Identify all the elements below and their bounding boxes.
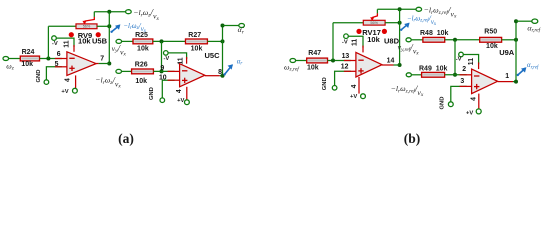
U5B output red stub — [96, 63, 99, 65]
wire -V to pin 11 of U8D — [348, 36, 363, 47]
wire RV9 wiper up to top rail — [93, 12, 95, 17]
label RV17 — [362, 28, 381, 37]
svg-text:10: 10 — [159, 74, 167, 81]
power terminal +V of U8D — [361, 94, 366, 99]
svg-text:56%: 56% — [370, 21, 378, 25]
label omega_z — [6, 61, 15, 71]
pin 4 red stub U5C — [186, 87, 188, 100]
pin 3 number — [460, 78, 464, 85]
label GND of U5C — [149, 87, 155, 100]
power terminal -V of U9A — [459, 52, 464, 57]
junction U9A output node — [514, 80, 518, 84]
svg-text:10k: 10k — [21, 61, 33, 68]
label -Ir.wz/vx black — [133, 8, 159, 22]
wire R49 to pin 2 — [445, 74, 467, 76]
wire U5C output to rail — [220, 75, 223, 77]
svg-text:7: 7 — [100, 56, 104, 63]
pin 11 number U9A — [468, 58, 475, 65]
RV17 adjust dot right — [382, 29, 387, 34]
wire omega_z_ref to R47 — [296, 60, 307, 62]
U8D non-inverting input marker — [358, 68, 363, 73]
svg-text:4: 4 — [351, 84, 358, 88]
label R49 10k — [419, 66, 448, 73]
svg-text:9: 9 — [160, 65, 164, 72]
svg-text:GND: GND — [440, 97, 446, 110]
top rail wire b — [377, 8, 415, 10]
pin 1 number — [505, 73, 509, 80]
label omega_z_ref — [284, 62, 300, 72]
label R47 — [308, 50, 321, 57]
voltage probe on U5B output — [110, 24, 120, 33]
wire vy/vx to R25 — [122, 40, 133, 42]
top rail wire — [94, 11, 125, 13]
probe label -Ir.wzref/vx blue — [407, 14, 437, 27]
svg-text:U9A: U9A — [499, 48, 515, 57]
ground terminal GND of U5B — [44, 80, 49, 85]
label -Ir.wzref/vx input — [391, 84, 424, 98]
voltage probe on U8D output — [400, 23, 410, 31]
wire rail to output terminal — [223, 25, 239, 27]
output rail of U5C — [222, 26, 224, 76]
U5B non-inverting input marker — [69, 66, 74, 71]
pin 4 number U9A — [470, 97, 477, 101]
junction node at pin 6 / feedback tap — [46, 57, 50, 61]
resistor R47 — [307, 58, 328, 63]
svg-text:+V: +V — [466, 110, 473, 116]
svg-text:+V: +V — [61, 89, 68, 95]
RV17 adjust dot left — [356, 29, 361, 34]
resistor R50 feedback — [480, 37, 502, 42]
svg-text:4: 4 — [176, 89, 183, 93]
output rail vertical b — [399, 9, 401, 65]
label -V of U9A — [456, 57, 462, 63]
svg-text:10k: 10k — [307, 65, 319, 72]
wire R25 to summing node — [153, 40, 186, 42]
feedback wire to RV9 left — [48, 25, 76, 27]
svg-text:R25: R25 — [135, 32, 148, 39]
op-amp U5C — [180, 64, 205, 87]
svg-text:10k: 10k — [367, 35, 380, 44]
feedback wire up from pin-6 node — [47, 26, 49, 58]
junction R27 right on rail — [221, 39, 225, 43]
svg-text:-V: -V — [52, 41, 58, 47]
ground terminal GND of U5C — [160, 98, 165, 103]
wire pin 3 to ground — [451, 86, 467, 101]
U8D inverting input marker — [358, 59, 363, 61]
label -Ir.wz/vx input — [95, 75, 121, 89]
op-amp U5B — [67, 52, 96, 76]
label GND of U9A — [440, 97, 446, 110]
label GND of U5B — [36, 70, 42, 83]
junction output node — [107, 62, 111, 66]
voltage probe on U5C output — [223, 64, 233, 75]
svg-text:R49 10k: R49 10k — [419, 66, 448, 73]
U9A non-inverting input marker — [474, 84, 479, 89]
wire -Ir.wz/vx to R26 — [122, 70, 132, 72]
junction summing node at pin 9 — [160, 69, 164, 73]
svg-text:3: 3 — [460, 78, 464, 85]
label -V of U5B — [52, 41, 58, 47]
input terminal -Ir.wz/vx — [116, 69, 122, 73]
pin 9 red stub — [168, 70, 180, 72]
label R48 10k — [420, 30, 449, 37]
power terminal -V of U8D — [344, 34, 349, 39]
svg-text:R50: R50 — [484, 28, 497, 35]
pin 5 red stub — [55, 66, 67, 68]
svg-text:11: 11 — [63, 40, 70, 47]
svg-text:10k: 10k — [137, 45, 149, 52]
label GND of U8D — [322, 77, 328, 90]
op-amp ref U9A — [499, 48, 515, 57]
pin 12 number — [341, 63, 349, 70]
wire omega_z to R24 — [9, 58, 21, 60]
wire RV17 right to output rail — [385, 22, 400, 24]
pin 8 number — [218, 69, 222, 76]
junction top rail b — [398, 7, 402, 11]
pin 6 red stub — [55, 58, 67, 60]
output rail of U9A — [515, 21, 517, 81]
label vy/vx — [112, 44, 127, 58]
svg-text:R26: R26 — [135, 61, 148, 68]
resistor R26 — [132, 69, 154, 74]
label alpha_r terminal — [238, 25, 245, 35]
svg-text:-V: -V — [342, 40, 348, 46]
resistor R25 — [133, 39, 153, 44]
svg-text:R48 10k: R48 10k — [420, 30, 449, 37]
pin 4 number — [65, 78, 72, 82]
wire pin 10 to ground — [162, 80, 174, 98]
output terminal alpha_r — [239, 24, 245, 28]
pin 2 number — [462, 66, 466, 73]
wire summing node down to pin 2 — [454, 40, 456, 75]
wire U5B output to rail — [99, 63, 110, 65]
label +V of U5C — [177, 98, 184, 104]
value 10k of R24 — [21, 61, 33, 68]
svg-text:10k: 10k — [135, 78, 147, 85]
output terminal alpha_r_ref — [532, 19, 538, 23]
U8D output red stub — [382, 64, 394, 66]
label R25 — [135, 32, 148, 39]
pin 13 red stub — [344, 60, 356, 62]
value 10k of RV9 — [78, 36, 91, 45]
svg-text:R24: R24 — [22, 49, 35, 56]
output terminal -Ir.wzref/vx — [416, 7, 422, 11]
wire U9A output to rail — [513, 81, 516, 83]
label +V of U8D — [350, 94, 357, 100]
wire R26 to pin 9 — [153, 70, 174, 72]
caption (a) — [118, 131, 134, 146]
input terminal -Ir.wzref/vx — [406, 73, 411, 77]
label R27 — [188, 32, 201, 39]
op-amp ref U8D — [384, 37, 400, 46]
U5C inverting input marker — [182, 70, 187, 72]
svg-text:11: 11 — [351, 39, 358, 46]
svg-text:GND: GND — [322, 77, 328, 90]
svg-text:GND: GND — [149, 87, 155, 100]
svg-text:R47: R47 — [308, 50, 321, 57]
junction top rail — [107, 10, 111, 14]
ground terminal GND of U8D — [332, 86, 337, 91]
label R24 — [22, 49, 35, 56]
svg-text:+V: +V — [177, 98, 184, 104]
wire pin 12 to ground — [335, 71, 351, 85]
pin 5 number — [55, 61, 59, 68]
potentiometer RV17 body wiper — [370, 13, 377, 21]
junction rail top corner — [221, 24, 225, 28]
svg-text:-V: -V — [456, 57, 462, 63]
svg-text:10k: 10k — [486, 43, 498, 50]
potentiometer RV17 body — [363, 20, 385, 25]
input terminal vy/vx — [116, 39, 122, 43]
ground terminal GND of U9A — [448, 102, 453, 107]
resistor R48 — [423, 37, 445, 42]
output rail vertical — [108, 12, 110, 64]
junction RV17 right on rail — [398, 21, 402, 25]
U9A output red stub — [498, 81, 513, 83]
pin 14 number — [387, 57, 395, 64]
pin 7 number — [100, 56, 104, 63]
value 10k of RV17 — [367, 35, 380, 44]
power terminal +V of U9A — [476, 109, 481, 114]
label R26 — [135, 61, 148, 68]
U5C output red stub — [205, 75, 220, 77]
svg-text:2: 2 — [462, 66, 466, 73]
label -Ir.wzref/vx black — [424, 6, 457, 20]
probe label alpha_r_ref blue — [527, 62, 539, 70]
pin 4 number U5C — [176, 89, 183, 93]
svg-text:U5B: U5B — [92, 36, 108, 45]
label +V of U5B — [61, 89, 68, 95]
label R50 — [484, 28, 497, 35]
pin 4 red stub U8D — [358, 77, 360, 94]
svg-text:4: 4 — [65, 78, 72, 82]
svg-text:11: 11 — [177, 57, 184, 64]
wire R50 to output rail b — [502, 39, 516, 41]
label alpha_r_ref terminal — [527, 23, 541, 33]
wire -V to pin 11 of U9A — [463, 55, 478, 65]
power terminal +V of U5C — [185, 100, 190, 105]
pin 6 number — [57, 51, 61, 58]
pin 11 red stub — [73, 45, 75, 52]
wire pin 5 to ground — [46, 67, 62, 80]
svg-text:11: 11 — [468, 58, 475, 65]
output terminal -Ir.wz/vx — [126, 10, 132, 14]
caption (b) — [404, 131, 421, 146]
svg-text:10k: 10k — [191, 45, 203, 52]
value 10k of R26 — [135, 78, 147, 85]
wire R48 to summing node b — [445, 39, 480, 41]
feedback wire up from pin-13 node — [332, 23, 334, 61]
svg-text:4: 4 — [470, 97, 477, 101]
svg-text:12: 12 — [341, 63, 349, 70]
pin 10 number — [159, 74, 167, 81]
voltage probe on U9A output — [517, 67, 527, 76]
op-amp ref U5C — [205, 51, 221, 60]
label -V of U5C — [164, 56, 170, 62]
pin 11 red stub U5C — [186, 57, 188, 64]
wire R27 to output rail — [207, 40, 222, 42]
U5B inverting input marker — [69, 57, 74, 59]
wire vy_ref to R48 — [411, 39, 423, 41]
label vy_ref/vx — [398, 42, 420, 56]
op-amp U9A — [472, 69, 498, 94]
RV9 adjust dot left — [69, 32, 74, 37]
pin 11 number — [63, 40, 70, 47]
wire R47 to pin 13 — [328, 60, 351, 62]
resistor R24 — [20, 56, 39, 61]
wire -V to pin 11 — [56, 38, 74, 47]
junction rail top corner b — [514, 19, 518, 23]
wire U8D output to rail — [394, 64, 400, 66]
resistor R49 — [422, 72, 445, 77]
label -V of U8D — [342, 40, 348, 46]
value 10k of R25 — [137, 45, 149, 52]
U5C non-inverting input marker — [182, 78, 187, 83]
svg-text:14: 14 — [387, 57, 395, 64]
junction summing node top b — [453, 38, 457, 42]
svg-text:GND: GND — [36, 70, 42, 83]
svg-text:R27: R27 — [188, 32, 201, 39]
probe label alpha_r blue — [237, 58, 243, 66]
wire -V to pin 11 of U5C — [168, 53, 187, 59]
value 10k of R27 — [191, 45, 203, 52]
power terminal +V of U5B — [73, 88, 78, 93]
potentiometer RV9 body wiper — [83, 17, 95, 25]
power terminal -V of U5C — [164, 51, 169, 56]
svg-text:(a): (a) — [118, 131, 134, 146]
feedback wire to RV17 left — [333, 22, 363, 24]
pin 9 number — [160, 65, 164, 72]
pin 4 red stub U9A — [478, 94, 480, 109]
svg-text:(b): (b) — [404, 131, 421, 146]
pin 11 red stub U9A — [478, 62, 480, 69]
power terminal -V of U5B — [52, 36, 57, 41]
probe label -Ir.wz/vx blue — [123, 21, 146, 34]
svg-text:6: 6 — [57, 51, 61, 58]
pin 10 red stub — [168, 79, 180, 81]
pin 13 number — [342, 53, 350, 60]
op-amp U8D — [356, 52, 382, 77]
svg-text:13: 13 — [342, 53, 350, 60]
pin 11 number U5C — [177, 57, 184, 64]
svg-text:10k: 10k — [78, 36, 91, 45]
svg-text:U5C: U5C — [205, 51, 221, 60]
label +V of U9A — [466, 110, 473, 116]
resistor R27 feedback — [186, 39, 208, 44]
junction RV9 right on rail — [107, 24, 111, 28]
pin 2 red stub — [460, 74, 472, 76]
wire rail to output terminal b — [516, 20, 532, 22]
potentiometer RV9 body — [76, 24, 97, 29]
input terminal vy_ref/vx — [406, 38, 411, 42]
junction output node b — [398, 63, 402, 67]
wire summing node down to pin 9 — [161, 41, 163, 71]
pin 3 red stub — [460, 85, 472, 87]
svg-text:8: 8 — [218, 69, 222, 76]
wire RV17 wiper up to top rail — [376, 9, 378, 13]
pin 12 red stub — [344, 70, 356, 72]
pin 4 red stub — [75, 75, 77, 88]
label RV9 — [78, 31, 92, 40]
svg-text:56%: 56% — [83, 25, 91, 29]
op-amp ref U5B — [92, 36, 108, 45]
svg-text:-V: -V — [164, 56, 170, 62]
RV9 adjust dot right — [96, 32, 101, 37]
junction summing node top — [160, 39, 164, 43]
U9A inverting input marker — [474, 75, 479, 77]
pin 11 red stub U8D — [362, 46, 364, 53]
wire R24 to pin 6 — [40, 58, 62, 60]
junction U5C output node — [221, 74, 225, 78]
value 10k of R47 — [307, 65, 319, 72]
input terminal omega_z_ref — [290, 59, 296, 63]
junction R50 right on rail — [514, 38, 518, 42]
wire RV9 right to output rail — [97, 25, 109, 27]
input terminal omega_z — [3, 57, 9, 61]
pin 11 number U8D — [351, 39, 358, 46]
wire -Ir.wzref to R49 — [411, 74, 421, 76]
svg-text:+V: +V — [350, 94, 357, 100]
svg-text:1: 1 — [505, 73, 509, 80]
value 10k of R50 — [486, 43, 498, 50]
junction node pin 13 / feedback tap — [331, 59, 335, 63]
pin 4 number U8D — [351, 84, 358, 88]
junction summing node at pin 2 — [453, 73, 457, 77]
